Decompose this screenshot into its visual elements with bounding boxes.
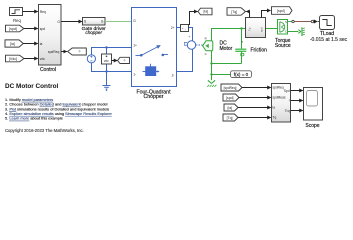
subsystem Control (39, 5, 62, 74)
svg-text:ia: ia (40, 42, 43, 46)
wire voltage sensor output (112, 60, 118, 62)
wire step to Control Req (23, 11, 38, 13)
PS arrow at TLoad (314, 19, 320, 23)
wire bottom rail to chopper 1- (91, 71, 132, 73)
svg-text:C: C (285, 29, 287, 33)
from tag spdReq (bottom) (221, 84, 242, 91)
current sensor ia (181, 25, 189, 32)
DC motor armature (184, 35, 196, 55)
friction icon (235, 41, 246, 56)
wire subsystem Trq to scope (291, 110, 303, 112)
svg-text:Control: Control (40, 67, 56, 73)
svg-text:Spd: Spd (284, 89, 290, 93)
motor shaft (dashed) (196, 44, 203, 46)
from tag [spd] (6, 25, 24, 32)
mechanical rotational reference (down) (207, 80, 216, 87)
chopper switch icon (136, 45, 169, 56)
svg-text:Copyright 2016-2023 The MathWo: Copyright 2016-2023 The MathWorks, Inc. (5, 128, 84, 133)
wire sensor bottom tap (106, 64, 108, 72)
svg-text:-0.015 at 1.5 sec: -0.015 at 1.5 sec (310, 37, 348, 43)
wire subsystem i to scope (291, 100, 303, 102)
wire current sensor to goto ia (189, 12, 198, 25)
svg-text:[Tq]: [Tq] (227, 116, 233, 120)
junction friction top (240, 27, 242, 29)
svg-text:f(x) = 0: f(x) = 0 (234, 72, 249, 77)
mechanical bottom rail (211, 63, 242, 65)
svg-text:Tq: Tq (248, 27, 252, 31)
svg-text:vdc: vdc (104, 59, 109, 63)
svg-text:[spd]: [spd] (9, 27, 17, 31)
svg-text:Req: Req (13, 18, 21, 23)
wire friction bottom stub (241, 52, 243, 64)
svg-text:[spdReq]: [spdReq] (224, 86, 237, 90)
wire spd to scope subsystem (239, 97, 271, 99)
svg-text:Tq: Tq (273, 116, 277, 120)
svg-text:spdMeas: spdMeas (273, 96, 286, 100)
wire top rail to chopper 1+ (91, 47, 132, 49)
wire Tq to scope subsystem (238, 117, 271, 119)
wire torque source C to reference (288, 31, 299, 33)
wire Control G to Gate driver (61, 21, 82, 23)
solver configuration f(x)=0 (231, 71, 252, 78)
svg-text:chopper: chopper (85, 30, 102, 35)
svg-text:[Tq]: [Tq] (231, 10, 237, 14)
svg-text:vdc: vdc (40, 57, 45, 61)
wire ia to scope subsystem (238, 107, 271, 109)
PS line TLoad to torque source (294, 21, 311, 23)
svg-text:-: - (188, 50, 190, 54)
wire interface R up to rail (211, 29, 213, 41)
svg-text:G: G (101, 20, 104, 24)
goto tag ia (198, 8, 212, 15)
svg-text:S: S (285, 20, 287, 24)
step source Req (10, 8, 23, 23)
torque source block (278, 20, 288, 35)
goto tag vdc (118, 57, 130, 63)
from tag ia (bottom) (224, 104, 238, 111)
wire spdReq to scope subsystem (242, 87, 271, 89)
junction bottom rail (210, 62, 212, 64)
wire source bottom to rail (91, 63, 93, 72)
wire source top to rail (91, 47, 93, 55)
svg-text:spdReq: spdReq (273, 86, 284, 90)
wire [Vdc] to Control vdc (24, 58, 38, 60)
svg-text:[spd]: [spd] (277, 9, 285, 13)
wire to solver (212, 74, 231, 76)
svg-text:2+: 2+ (171, 26, 175, 30)
mechanical top rail (211, 28, 278, 30)
goto tag Tq (227, 8, 246, 16)
svg-text:G: G (133, 19, 136, 23)
junction node top (105, 46, 107, 48)
svg-text:-T-: -T- (123, 60, 126, 63)
wire sensor top tap (106, 48, 108, 55)
label DC Motor (220, 40, 233, 51)
svg-text:spdReq: spdReq (48, 50, 60, 54)
mechanical rotational reference (right) (298, 27, 305, 36)
goto tag spd (272, 7, 293, 15)
svg-text:[Vdc]: [Vdc] (9, 57, 17, 61)
Four-Quadrant Chopper block (132, 8, 177, 87)
svg-text:+: + (182, 27, 184, 31)
torque speed sensor block (246, 18, 266, 38)
svg-text:C: C (205, 52, 207, 56)
svg-text:5. Learn more about this examp: 5. Learn more about this example (5, 116, 63, 121)
svg-text:[ia]: [ia] (228, 106, 233, 110)
svg-text:[ia]: [ia] (203, 10, 208, 14)
label Torque Source (275, 38, 291, 49)
wire sensor to goto Tq (246, 12, 249, 18)
PS port circle left (292, 20, 294, 22)
rotational interface block (203, 37, 213, 57)
svg-text:1-: 1- (133, 73, 136, 77)
svg-text:Friction: Friction (251, 48, 268, 54)
svg-text:[ia]: [ia] (10, 42, 15, 46)
wire interface C down (211, 51, 213, 80)
svg-text:G: G (57, 20, 60, 24)
svg-text:+: + (188, 35, 190, 39)
junction solver tee (210, 73, 212, 75)
wire chopper 2+ to motor + (177, 28, 193, 42)
svg-text:Req: Req (40, 10, 46, 14)
scope signals subsystem (272, 84, 291, 123)
from tag spd (bottom) (223, 94, 239, 101)
svg-text:[spd]: [spd] (226, 96, 233, 100)
scope block (304, 88, 323, 130)
block Gate driver chopper (82, 18, 107, 36)
voltage sensor vdc (102, 54, 112, 64)
wire Control spdReq to goto (61, 51, 67, 53)
svg-text:-T-: -T- (78, 50, 81, 54)
chopper label (136, 89, 171, 100)
svg-text:Chopper: Chopper (144, 94, 164, 100)
PS port circle right (311, 20, 313, 22)
description list (5, 97, 113, 121)
from tag [Vdc] (6, 55, 25, 62)
svg-text:Motor: Motor (220, 46, 233, 52)
wire [ia] to Control ia (23, 43, 38, 45)
svg-text:TLoad: TLoad (320, 31, 334, 37)
goto tag spdReq (68, 48, 87, 55)
torque source S port stub (288, 21, 292, 23)
svg-text:R: R (205, 37, 207, 41)
svg-text:Trq: Trq (285, 109, 290, 113)
electrical reference ground (103, 72, 111, 92)
junction node bottom (105, 70, 107, 72)
svg-text:ia: ia (273, 106, 276, 110)
chopper IGBT icon (143, 64, 160, 76)
from tag [ia] (5, 40, 23, 47)
TLoad step source (310, 16, 348, 43)
wire subsystem Spd to scope (291, 90, 303, 92)
svg-text:spd: spd (260, 27, 264, 32)
svg-text:DC Motor Control: DC Motor Control (5, 83, 58, 90)
svg-text:2-: 2- (172, 74, 175, 78)
svg-text:Scope: Scope (305, 123, 319, 129)
wire friction top stub (241, 29, 243, 49)
wire Gate driver to chopper G (physical) (105, 21, 132, 23)
wire motor - to chopper 2- (177, 49, 193, 71)
wire [spd] to Control spd (24, 28, 38, 30)
svg-text:Source: Source (275, 43, 291, 49)
svg-text:1+: 1+ (133, 43, 137, 47)
wire sensor to goto spd (262, 11, 271, 18)
DC voltage source V (87, 55, 95, 63)
from tag Tq (bottom) (223, 114, 238, 121)
svg-text:spd: spd (40, 27, 45, 31)
